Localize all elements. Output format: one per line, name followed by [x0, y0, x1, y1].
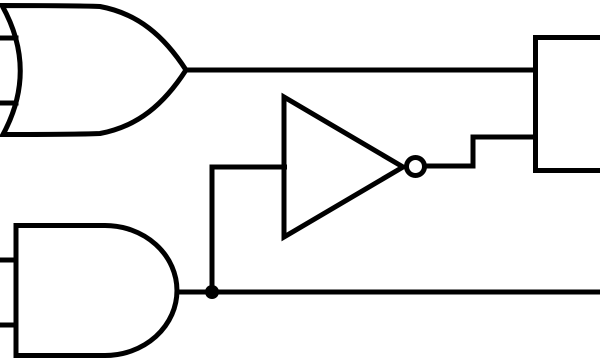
- wire: AND input A stub: [0, 258, 19, 263]
- wire: AND output to right edge: [175, 290, 600, 295]
- wire: inverter output with jog to box: [426, 137, 538, 166]
- wire: OR output to box: [185, 68, 538, 73]
- wire: OR input A stub: [0, 36, 19, 41]
- wire: riser from junction to inverter input: [210, 167, 215, 294]
- inversion bubble: [407, 158, 425, 176]
- inverter U4 (triangle): [284, 97, 403, 237]
- wire: AND input B stub: [0, 323, 19, 328]
- block U3 (right box): [536, 38, 600, 171]
- wire: OR input B stub: [0, 101, 19, 106]
- wire: inverter input: [210, 165, 288, 170]
- or-gate U1: [2, 6, 186, 135]
- node: junction dot: [205, 285, 219, 299]
- and-gate U2: [16, 226, 177, 356]
